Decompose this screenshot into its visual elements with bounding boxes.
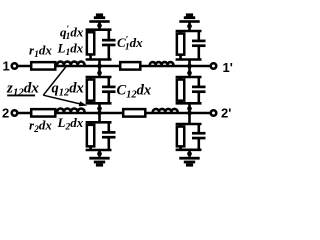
middle-left coupling branch node bar top xyxy=(86,76,112,79)
top-left branch node bar top xyxy=(86,28,112,31)
leader line from z12dx fork to inductor L2 xyxy=(43,95,82,104)
bottom-right branch node bar top xyxy=(176,123,202,126)
junction dot above line2 left xyxy=(97,106,102,111)
bottom-left branch resistor top lead xyxy=(89,122,92,125)
middle-right coupling branch resistor xyxy=(177,80,184,101)
inductor L1 xyxy=(57,62,85,65)
resistor line2 right xyxy=(123,109,145,117)
junction dot line2 right xyxy=(187,111,192,116)
inductor L2 xyxy=(57,109,85,112)
top-left branch resistor xyxy=(87,32,94,54)
middle-right coupling branch node bar bottom xyxy=(176,102,202,105)
svg-text:r2dx: r2dx xyxy=(29,117,52,135)
middle-left coupling branch resistor top lead xyxy=(89,77,92,80)
middle-left coupling branch node bar bottom xyxy=(86,102,112,105)
terminal 2 xyxy=(12,110,18,116)
wire bottom-left branch to ground xyxy=(98,150,101,157)
top-right branch capacitor plate top xyxy=(192,40,206,43)
top-left branch capacitor bottom lead xyxy=(108,45,111,60)
bottom-left branch capacitor bottom lead xyxy=(108,137,111,150)
arrowhead at inductor L2 xyxy=(79,101,88,106)
middle-right coupling branch capacitor bottom lead xyxy=(198,92,201,104)
wire line 2 xyxy=(18,112,210,115)
junction dot below line1 left xyxy=(97,71,102,76)
junction dot bottom-right ground stem xyxy=(187,151,192,156)
middle-right coupling branch node bar top xyxy=(176,76,202,79)
inductor line2 right xyxy=(153,109,178,112)
bottom-left branch resistor xyxy=(87,125,94,147)
top-left branch resistor bottom lead xyxy=(89,54,92,59)
svg-text:2: 2 xyxy=(2,106,9,121)
top-left branch capacitor top lead xyxy=(108,30,111,40)
wire ground to top-right branch xyxy=(188,22,191,31)
middle-right coupling branch resistor top lead xyxy=(179,77,182,80)
junction dot above line2 right xyxy=(187,106,192,111)
svg-text:r1dx: r1dx xyxy=(29,43,52,61)
top-right branch capacitor plate bottom xyxy=(192,44,206,47)
top-left branch resistor top lead xyxy=(89,30,92,33)
middle-right coupling branch resistor bottom lead xyxy=(179,100,182,103)
top-right branch resistor bottom lead xyxy=(179,54,182,59)
wire line 1 xyxy=(18,65,210,68)
bottom-left branch capacitor top lead xyxy=(108,122,111,132)
svg-text:q′1dx: q′1dx xyxy=(60,25,84,43)
wire bottom-right branch to ground xyxy=(188,150,191,157)
wire top-left branch to line1 xyxy=(98,60,101,67)
bottom-right branch capacitor plate top xyxy=(192,132,206,135)
bottom-left branch node bar top xyxy=(86,121,112,124)
resistor line1 right xyxy=(120,62,140,70)
junction dot line1 right xyxy=(187,64,192,69)
top-left branch node bar bottom xyxy=(86,58,112,61)
wire line2 to bottom-right branch xyxy=(188,113,191,124)
svg-text:C′1dx: C′1dx xyxy=(117,35,143,53)
terminal 2prime xyxy=(211,110,217,116)
middle-left coupling branch resistor bottom lead xyxy=(89,100,92,103)
resistor r2 xyxy=(31,109,55,116)
top-right branch node bar bottom xyxy=(176,58,202,61)
wire line2 to bottom-left branch xyxy=(98,113,101,122)
bottom-right branch resistor top lead xyxy=(179,124,182,127)
wire middle-right branch to line2 xyxy=(188,103,191,113)
terminal 1prime xyxy=(211,63,217,69)
wire line1 to middle-left branch xyxy=(98,66,101,77)
middle-right coupling branch capacitor plate top xyxy=(192,86,206,89)
middle-left coupling branch capacitor bottom lead xyxy=(108,92,111,104)
bottom-right branch resistor bottom lead xyxy=(179,146,182,150)
top-right branch resistor top lead xyxy=(179,31,182,34)
junction dot line2 left xyxy=(97,111,102,116)
middle-left coupling branch capacitor plate bottom xyxy=(102,90,116,93)
bottom-left branch capacitor plate top xyxy=(102,131,116,134)
top-right branch resistor xyxy=(177,34,184,55)
wire top-right branch to line1 xyxy=(188,60,191,67)
ground top left xyxy=(89,13,109,22)
junction dot below line1 right xyxy=(187,71,192,76)
middle-right coupling branch capacitor plate bottom xyxy=(192,90,206,93)
wire middle-left branch to line2 xyxy=(98,103,101,113)
resistor r1 xyxy=(31,62,55,69)
svg-text:2': 2' xyxy=(221,106,231,121)
svg-text:L1dx: L1dx xyxy=(57,41,84,59)
svg-text:1': 1' xyxy=(223,60,233,75)
junction dot bottom-left ground stem xyxy=(97,151,102,156)
ground bottom left xyxy=(89,157,109,167)
top-right branch capacitor top lead xyxy=(198,31,201,41)
junction dot top-right ground stem xyxy=(187,24,192,29)
ground bottom right xyxy=(179,157,199,167)
junction dot top-left ground stem xyxy=(97,23,102,28)
underline of label z12dx xyxy=(7,94,35,96)
bottom-right branch resistor xyxy=(177,127,184,147)
middle-right coupling branch capacitor top lead xyxy=(198,77,201,87)
bottom-left branch capacitor plate bottom xyxy=(102,136,116,139)
bottom-right branch node bar bottom xyxy=(176,149,202,152)
svg-text:L2dx: L2dx xyxy=(57,115,84,133)
middle-left coupling branch capacitor plate top xyxy=(102,86,116,89)
leader line from z12dx fork to inductor L1 xyxy=(43,67,66,96)
inductor line1 right xyxy=(150,62,174,65)
junction dot line1 left xyxy=(97,64,102,69)
ground top right xyxy=(179,13,199,22)
wire line1 to middle-right branch xyxy=(188,66,191,77)
svg-text:1: 1 xyxy=(3,59,10,74)
top-left branch capacitor plate top xyxy=(102,39,116,42)
bottom-right branch capacitor bottom lead xyxy=(198,138,201,150)
bottom-right branch capacitor plate bottom xyxy=(192,137,206,140)
middle-left coupling branch resistor xyxy=(87,80,94,101)
top-right branch capacitor bottom lead xyxy=(198,46,201,60)
top-left branch capacitor plate bottom xyxy=(102,44,116,47)
bottom-right branch capacitor top lead xyxy=(198,124,201,133)
middle-left coupling branch capacitor top lead xyxy=(108,77,111,87)
top-right branch node bar top xyxy=(176,30,202,33)
terminal 1 xyxy=(12,63,18,69)
wire ground to top-left branch xyxy=(98,22,101,29)
bottom-left branch resistor bottom lead xyxy=(89,146,92,150)
bottom-left branch node bar bottom xyxy=(86,149,112,152)
